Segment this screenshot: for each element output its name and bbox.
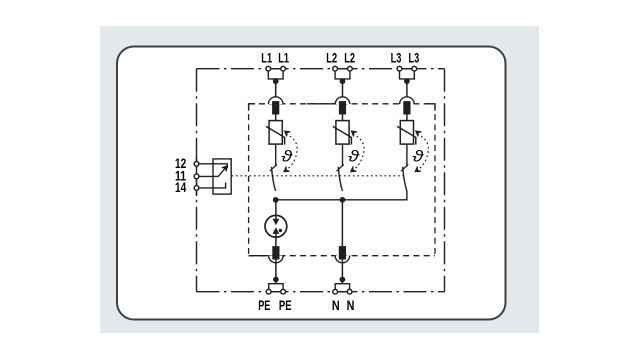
terminal circle 11 <box>194 174 199 179</box>
terminal circle PE (left) <box>266 289 271 294</box>
svg-text:L2: L2 <box>344 49 355 65</box>
spark gap lower arrowhead <box>273 227 280 234</box>
varistor L1 diagonal stroke <box>266 126 285 144</box>
module boundary top solid run before L2 <box>307 103 335 105</box>
arrowhead to varistor L2 <box>351 131 357 137</box>
wire bus to spark gap <box>275 200 277 216</box>
enclosure boundary right side <box>444 69 446 292</box>
solid border segment through PE terminals <box>268 291 284 293</box>
wires joining L3 terminal pair <box>400 71 415 79</box>
terminal circle N (left) <box>333 289 338 294</box>
varistor L2 diagonal stroke <box>333 126 352 144</box>
common bus wire <box>276 191 407 200</box>
changeover blade arrowhead <box>222 166 228 172</box>
spark gap upper electrode wire <box>275 216 277 220</box>
varistor L2 body <box>336 121 349 145</box>
disconnector blade L3 <box>403 167 407 191</box>
disconnector tick L2 <box>337 164 344 171</box>
module boundary bottom side <box>249 255 435 257</box>
spark gap upper arrowhead <box>273 219 280 226</box>
terminal circle L3 (left) <box>397 66 402 71</box>
terminal circle L2 (right) <box>348 66 353 71</box>
wire to varistor L1 <box>275 115 277 121</box>
svg-text:L1: L1 <box>278 49 289 65</box>
junction dot L3 <box>404 78 410 84</box>
wire varistor to disconnector L1 <box>275 145 277 167</box>
solid border segment through L3 terminals <box>399 68 416 70</box>
solid border segment through L1 terminals <box>267 68 284 70</box>
dotted thermal action arc L2 <box>353 134 364 169</box>
disconnector tick L1 <box>270 164 277 171</box>
wire L3 down to module <box>406 81 408 97</box>
terminal circle PE (right) <box>281 289 286 294</box>
background panel <box>100 26 539 333</box>
wire contact 12 <box>199 164 227 169</box>
svg-text:ϑ: ϑ <box>412 148 424 165</box>
terminal circle L3 (right) <box>412 66 417 71</box>
dotted linkage line (remote signalling to thermal disconnectors) <box>231 175 404 177</box>
enclosure boundary bottom side <box>197 291 445 293</box>
changeover contact box <box>213 159 231 194</box>
disconnector blade L1 <box>272 167 276 191</box>
terminal circle 14 <box>194 186 199 191</box>
module edge bump (arc) L2 <box>335 97 350 104</box>
wire L1 down to module <box>275 81 277 97</box>
wire bus to N contact <box>341 200 343 246</box>
terminal circle N (right) <box>347 289 352 294</box>
wires joining L1 terminal pair <box>268 71 283 79</box>
solid border segment through L2 terminals <box>334 68 351 70</box>
disconnector blade L2 <box>338 167 342 191</box>
arrowhead to varistor L1 <box>284 131 290 137</box>
wire to varistor L2 <box>342 115 344 121</box>
module edge bump (arc) L3 <box>400 97 415 104</box>
module edge bump (arc) PE <box>269 256 284 263</box>
junction dot L2 <box>340 78 346 84</box>
bus junction dot L1 <box>273 197 279 203</box>
module boundary top-right corner <box>426 104 435 111</box>
svg-text:PE: PE <box>258 297 270 313</box>
wires joining N terminal pair <box>335 280 349 290</box>
module edge bump (arc) N <box>335 256 350 263</box>
svg-text:N: N <box>332 297 340 313</box>
module boundary top-left corner <box>249 104 256 111</box>
spark gap circle (N-PE) <box>265 215 287 237</box>
svg-text:ϑ: ϑ <box>281 148 293 165</box>
arrowhead to disconnector L1 <box>284 166 290 172</box>
dotted thermal action arc L3 <box>417 134 428 169</box>
wire to varistor L3 <box>406 115 408 121</box>
wires joining L2 terminal pair <box>335 71 350 79</box>
solid border segment through N terminals <box>334 291 350 293</box>
spark gap trigger dot <box>279 229 282 232</box>
wire varistor to disconnector L3 <box>406 145 408 167</box>
terminal circle L1 (right) <box>281 66 286 71</box>
varistor L1 body <box>269 121 282 145</box>
plug-in contact (black block) L2 <box>339 101 346 114</box>
varistor L3 body <box>400 121 413 145</box>
dotted thermal action arc L1 <box>286 134 297 169</box>
spark gap lower electrode wire <box>275 234 277 247</box>
device outline card <box>117 47 506 320</box>
changeover blade <box>218 168 226 177</box>
varistor L3 diagonal stroke <box>397 126 416 144</box>
plug-in contact (black block) N <box>339 246 346 259</box>
svg-text:PE: PE <box>279 297 292 313</box>
terminal circle L1 (left) <box>266 66 271 71</box>
arrowhead to disconnector L3 <box>415 166 421 172</box>
junction dot L1 <box>273 78 279 84</box>
svg-text:L2: L2 <box>326 49 337 65</box>
wires joining PE terminal pair <box>269 280 283 290</box>
plug-in contact (black block) PE <box>272 246 279 259</box>
protection module boundary (dashed box) top side <box>249 103 435 105</box>
disconnector tick L3 <box>401 164 408 171</box>
plug-in contact (black block) L3 <box>403 101 410 114</box>
module boundary bottom-left solid run <box>249 255 269 257</box>
enclosure boundary (dash-dot box) top side <box>197 68 445 70</box>
svg-text:N: N <box>347 297 355 313</box>
terminal circle 12 <box>194 161 199 166</box>
module edge bump (arc) L1 <box>268 97 283 104</box>
svg-text:L3: L3 <box>391 49 402 65</box>
terminal circle L2 (left) <box>333 66 338 71</box>
svg-text:14: 14 <box>175 179 186 195</box>
arrowhead to disconnector L2 <box>351 166 357 172</box>
wire contact 14 <box>199 183 226 188</box>
junction dot PE <box>273 277 279 283</box>
svg-text:L1: L1 <box>261 49 272 65</box>
arrowhead to varistor L3 <box>416 131 422 137</box>
bus junction dot L2 <box>340 197 346 203</box>
plug-in contact (black block) L1 <box>272 101 279 114</box>
solid border segment at signalling terminals <box>196 157 198 197</box>
module boundary left side <box>248 104 250 256</box>
wire through module edge N <box>341 257 343 278</box>
module boundary right side <box>434 104 436 256</box>
junction dot N <box>340 277 346 283</box>
wire L2 down to module <box>342 81 344 97</box>
svg-text:ϑ: ϑ <box>348 148 360 165</box>
wire varistor to disconnector L2 <box>342 145 344 167</box>
wire contact 11 <box>199 175 218 177</box>
enclosure boundary left side <box>196 69 198 292</box>
wire through module edge PE <box>275 257 277 278</box>
svg-text:L3: L3 <box>409 49 420 65</box>
